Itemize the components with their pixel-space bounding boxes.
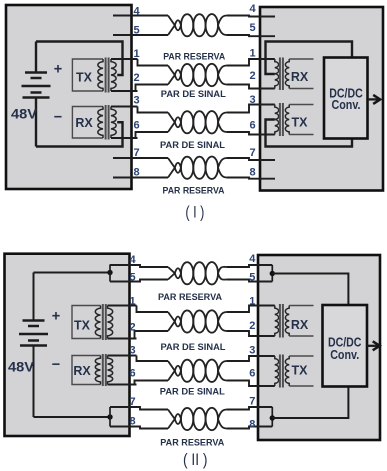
junction dot pins 7-8 (PD, II) bbox=[270, 407, 275, 427]
PD equipment box (diagram II, right) bbox=[258, 255, 380, 440]
wire TX bottom to pin 2 (II) bbox=[108, 338, 137, 340]
svg-text:TX: TX bbox=[292, 364, 309, 378]
pin label 5 (PSE, I) bbox=[133, 25, 139, 37]
twisted pair 3-6 cable (I) bbox=[168, 111, 227, 133]
svg-text:3: 3 bbox=[129, 345, 135, 357]
label 48V (II) bbox=[8, 360, 34, 375]
pin label 7 (PSE, II) bbox=[129, 396, 135, 408]
wire pin 1 (PSE side, I) bbox=[138, 59, 169, 66]
label 48V (I) bbox=[11, 106, 37, 121]
svg-text:RX: RX bbox=[291, 70, 309, 84]
svg-text:PAR RESERVA: PAR RESERVA bbox=[158, 292, 222, 303]
wire RX center tap to DC/DC + (I) bbox=[266, 42, 353, 75]
wire pin 2 (PD side, I) bbox=[227, 85, 275, 89]
wire RX bottom to pin 6 (I) bbox=[111, 137, 138, 139]
label PAR RESERVA pair 7-8 (I) bbox=[163, 186, 225, 197]
svg-text:6: 6 bbox=[249, 120, 255, 132]
pin label 5 (PSE, II) bbox=[129, 272, 135, 284]
wire pin 3 (PSE side, II) bbox=[137, 356, 169, 362]
wire TX center tap to DC/DC - (I) bbox=[266, 120, 353, 147]
wire pin 7 (PD side, II) bbox=[227, 407, 272, 410]
twisted pair 1-2 cable (II) bbox=[168, 310, 227, 332]
svg-text:RX: RX bbox=[73, 364, 91, 378]
wire pin 5 (PSE side, II) bbox=[110, 280, 168, 282]
wire pin 8 (PSE side, II) bbox=[110, 427, 168, 429]
svg-text:2: 2 bbox=[249, 320, 255, 332]
svg-text:3: 3 bbox=[249, 94, 255, 106]
svg-text:7: 7 bbox=[249, 396, 255, 408]
battery 48V (I) bbox=[22, 42, 51, 147]
wire pin 2 (PD side, II) bbox=[227, 331, 275, 336]
svg-text:2: 2 bbox=[129, 322, 135, 334]
pin label 8 (PSE, II) bbox=[129, 416, 135, 428]
svg-text:4: 4 bbox=[249, 253, 256, 265]
svg-text:−: − bbox=[52, 357, 60, 373]
svg-text:( II ): ( II ) bbox=[183, 451, 208, 469]
pin label 3 (PD, I) bbox=[249, 94, 255, 106]
pin label 1 (PSE, I) bbox=[133, 48, 139, 60]
wire battery+ to TX center tap (I) bbox=[36, 42, 123, 76]
svg-text:4: 4 bbox=[133, 6, 140, 18]
pin label 3 (PD, II) bbox=[249, 345, 255, 357]
pin label 1 (PSE, II) bbox=[129, 296, 135, 308]
svg-text:4: 4 bbox=[249, 3, 256, 15]
svg-text:TX: TX bbox=[292, 116, 309, 130]
label RX (PD, I) bbox=[291, 70, 309, 84]
svg-text:TX: TX bbox=[76, 71, 93, 85]
label - (II) bbox=[52, 357, 60, 373]
svg-text:Conv.: Conv. bbox=[330, 348, 359, 362]
svg-text:+: + bbox=[54, 61, 62, 77]
caption ( I ) bbox=[185, 204, 204, 222]
wire pin 8 (PD side, II) bbox=[227, 427, 272, 429]
pin label 3 (PSE, II) bbox=[129, 345, 135, 357]
svg-text:1: 1 bbox=[129, 296, 135, 308]
pin label 4 (PD, II) bbox=[249, 253, 256, 265]
svg-text:PAR DE SINAL: PAR DE SINAL bbox=[161, 89, 226, 100]
wire TX bottom to pin 2 (I) bbox=[111, 90, 138, 92]
pin label 4 (PD, I) bbox=[249, 3, 256, 15]
wire pin 3 (PSE side, I) bbox=[138, 107, 169, 113]
pin label 2 (PD, II) bbox=[249, 320, 255, 332]
svg-text:RX: RX bbox=[291, 318, 309, 332]
svg-text:7: 7 bbox=[249, 147, 255, 159]
label RX (PD, II) bbox=[291, 318, 309, 332]
svg-text:TX: TX bbox=[74, 319, 91, 333]
svg-text:2: 2 bbox=[249, 70, 255, 82]
wire pin 7 (PSE side, II) bbox=[110, 407, 168, 410]
svg-text:PAR DE SINAL: PAR DE SINAL bbox=[160, 387, 225, 398]
DC/DC converter U2 (II) bbox=[323, 305, 368, 387]
svg-text:2: 2 bbox=[133, 72, 139, 84]
transformer RX (PD, II) bbox=[275, 304, 314, 338]
label TX (PSE, II) bbox=[74, 319, 91, 333]
wire pin 1 (PSE side, II) bbox=[137, 306, 169, 313]
label DC/DC Conv. (II) bbox=[328, 336, 362, 363]
transformer RX (PSE, II) bbox=[72, 354, 113, 386]
svg-text:6: 6 bbox=[249, 368, 255, 380]
pin label 6 (PSE, II) bbox=[129, 368, 135, 380]
pin label 6 (PD, II) bbox=[249, 368, 255, 380]
twisted pair 3-6 cable (II) bbox=[168, 360, 227, 382]
label TX (PD, II) bbox=[292, 364, 309, 378]
pin label 5 (PD, II) bbox=[249, 272, 255, 284]
pin label 2 (PSE, II) bbox=[129, 322, 135, 334]
label TX (PD, I) bbox=[292, 116, 309, 130]
transformer TX (PSE, II) bbox=[72, 304, 113, 340]
PD equipment box (diagram I, right) bbox=[260, 7, 383, 191]
wire pin 4 (PD side, II) bbox=[227, 265, 272, 267]
svg-text:5: 5 bbox=[129, 272, 135, 284]
label + (I) bbox=[54, 61, 62, 77]
pin label 3 (PSE, I) bbox=[133, 95, 139, 107]
wire battery- to RX center tap (I) bbox=[36, 122, 123, 146]
junction dot pins 4-5 (PD, II) bbox=[270, 265, 275, 282]
svg-text:48V: 48V bbox=[8, 360, 34, 375]
label + (II) bbox=[52, 308, 60, 324]
wire pin 1 (PD side, II) bbox=[227, 306, 275, 313]
svg-text:1: 1 bbox=[249, 296, 255, 308]
pin label 4 (PSE, II) bbox=[129, 254, 136, 266]
battery 48V (II) bbox=[19, 273, 48, 418]
wire pin 6 (PSE side, II) bbox=[135, 381, 169, 385]
svg-text:8: 8 bbox=[249, 167, 255, 179]
svg-text:+: + bbox=[52, 308, 60, 324]
pin label 5 (PD, I) bbox=[249, 22, 255, 34]
label DC/DC Conv. (I) bbox=[329, 86, 363, 111]
svg-text:RX: RX bbox=[75, 116, 93, 130]
wire TX top to pin 1 (II) bbox=[108, 305, 137, 307]
svg-text:1: 1 bbox=[249, 48, 255, 60]
svg-text:Conv.: Conv. bbox=[332, 98, 361, 112]
wire pin 1 (PD side, I) bbox=[227, 59, 275, 66]
pin label 6 (PSE, I) bbox=[133, 120, 139, 132]
label RX (PSE, II) bbox=[73, 364, 91, 378]
label PAR DE SINAL pair 3-6 (II) bbox=[160, 387, 225, 398]
wire pin 2 (PSE side, II) bbox=[135, 331, 169, 339]
svg-text:6: 6 bbox=[129, 368, 135, 380]
pin label 7 (PD, II) bbox=[249, 396, 255, 408]
wire battery+ to pins 4-5 (II) bbox=[34, 272, 109, 274]
junction dot pins 7-8 (PSE, II) bbox=[107, 407, 112, 427]
output arrow (II) bbox=[367, 341, 380, 350]
transformer TX (PD, II) bbox=[275, 355, 314, 388]
pin label 2 (PD, I) bbox=[249, 70, 255, 82]
svg-text:5: 5 bbox=[249, 22, 255, 34]
pin label 4 (PSE, I) bbox=[133, 6, 140, 18]
wire pins 7-8 to DC/DC - (II) bbox=[272, 387, 348, 419]
output arrow (I) bbox=[368, 95, 380, 104]
pin label 2 (PSE, I) bbox=[133, 72, 139, 84]
label PAR DE SINAL pair 1-2 (I) bbox=[161, 89, 226, 100]
label TX (PSE, I) bbox=[76, 71, 93, 85]
wire RX top to pin 3 (I) bbox=[111, 106, 138, 108]
svg-text:PAR DE SINAL: PAR DE SINAL bbox=[161, 342, 226, 353]
twisted pair 7-8 cable (II) bbox=[168, 408, 227, 430]
svg-text:3: 3 bbox=[249, 345, 255, 357]
label PAR RESERVA pair 4-5 (I) bbox=[163, 52, 225, 63]
svg-text:8: 8 bbox=[129, 416, 135, 428]
wire pin 4 (PD side, I) bbox=[227, 16, 275, 17]
wire pin 7 (PSE side, I) bbox=[113, 157, 168, 159]
wire pin 6 (PD side, I) bbox=[227, 132, 275, 135]
transformer RX (PSE, I) bbox=[72, 105, 116, 140]
svg-text:PAR RESERVA: PAR RESERVA bbox=[163, 186, 225, 197]
label PAR RESERVA pair 4-5 (II) bbox=[158, 292, 222, 303]
svg-text:1: 1 bbox=[133, 48, 139, 60]
wire pin 2 (PSE side, I) bbox=[136, 85, 169, 92]
svg-text:PAR RESERVA: PAR RESERVA bbox=[163, 52, 225, 63]
wire pins 4-5 to DC/DC + (II) bbox=[272, 274, 348, 306]
pin label 7 (PSE, I) bbox=[133, 147, 139, 159]
wire pin 4 (PSE side, I) bbox=[113, 15, 168, 17]
wire RX top to pin 3 (II) bbox=[108, 355, 137, 357]
label - (I) bbox=[54, 109, 62, 125]
junction dot pins 4-5 (PSE, II) bbox=[107, 265, 112, 282]
pin label 1 (PD, I) bbox=[249, 48, 255, 60]
twisted pair 4-5 cable (II) bbox=[168, 262, 227, 284]
label RX (PSE, I) bbox=[75, 116, 93, 130]
wire pin 4 (PSE side, II) bbox=[110, 265, 168, 267]
wire pin 7 (PD side, I) bbox=[227, 158, 275, 160]
wire TX top to pin 1 (I) bbox=[111, 58, 138, 60]
svg-text:7: 7 bbox=[129, 396, 135, 408]
pin label 6 (PD, I) bbox=[249, 120, 255, 132]
wire pin 3 (PD side, II) bbox=[227, 356, 275, 361]
svg-text:3: 3 bbox=[133, 95, 139, 107]
svg-text:5: 5 bbox=[249, 272, 255, 284]
pin label 8 (PSE, I) bbox=[133, 167, 139, 179]
svg-text:PAR RESERVA: PAR RESERVA bbox=[160, 437, 224, 448]
twisted pair 4-5 cable (I) bbox=[168, 14, 227, 36]
pin label 1 (PD, II) bbox=[249, 296, 255, 308]
pin label 8 (PD, I) bbox=[249, 167, 255, 179]
transformer RX (PD, I) bbox=[275, 58, 314, 91]
twisted pair 1-2 cable (I) bbox=[168, 64, 227, 86]
caption ( II ) bbox=[183, 451, 208, 469]
twisted pair 7-8 cable (I) bbox=[168, 157, 227, 179]
wire pin 5 (PD side, II) bbox=[227, 280, 272, 282]
wire RX bottom to pin 6 (II) bbox=[108, 384, 137, 386]
PSE equipment box (diagram I, left) bbox=[6, 5, 132, 189]
wire pin 8 (PSE side, I) bbox=[113, 177, 168, 179]
svg-text:( I ): ( I ) bbox=[185, 204, 204, 222]
wire pin 6 (PSE side, I) bbox=[136, 132, 169, 138]
label PAR RESERVA pair 7-8 (II) bbox=[160, 437, 224, 448]
svg-text:8: 8 bbox=[249, 419, 255, 431]
wire pin 3 (PD side, I) bbox=[227, 105, 275, 113]
svg-text:7: 7 bbox=[133, 147, 139, 159]
pin label 8 (PD, II) bbox=[249, 419, 255, 431]
wire battery- to pins 7-8 (II) bbox=[34, 416, 109, 418]
pin label 7 (PD, I) bbox=[249, 147, 255, 159]
wire pin 8 (PD side, I) bbox=[227, 178, 275, 179]
svg-text:8: 8 bbox=[133, 167, 139, 179]
svg-text:4: 4 bbox=[129, 254, 136, 266]
svg-text:6: 6 bbox=[133, 120, 139, 132]
transformer TX (PD, I) bbox=[275, 103, 314, 136]
PSE equipment box (diagram II, left) bbox=[5, 254, 130, 436]
svg-text:−: − bbox=[54, 109, 62, 125]
svg-text:5: 5 bbox=[133, 25, 139, 37]
svg-text:48V: 48V bbox=[11, 106, 37, 121]
wire pin 6 (PD side, II) bbox=[227, 381, 275, 387]
DC/DC converter U1 (I) bbox=[324, 58, 368, 139]
label PAR DE SINAL pair 1-2 (II) bbox=[161, 342, 226, 353]
wire pin 5 (PD side, I) bbox=[227, 35, 275, 36]
svg-text:PAR DE SINAL: PAR DE SINAL bbox=[160, 140, 225, 151]
transformer TX (PSE, I) bbox=[72, 58, 116, 93]
wire pin 5 (PSE side, I) bbox=[113, 34, 168, 36]
label PAR DE SINAL pair 3-6 (I) bbox=[160, 140, 225, 151]
